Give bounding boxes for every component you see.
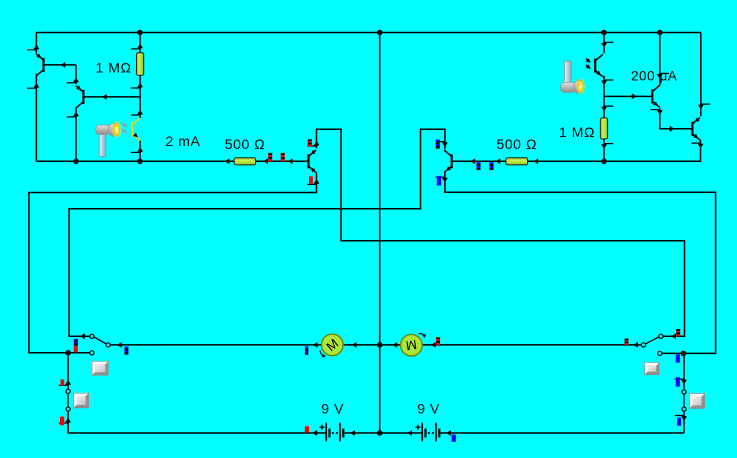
svg-text:500 Ω: 500 Ω (225, 136, 265, 152)
label R2 500 ohm (225, 136, 265, 152)
wire node to photo-transistor left (139, 97, 141, 118)
battery B2 9V right (415, 423, 440, 442)
charge marker blue striped right rail b (490, 162, 494, 170)
current arrow Q6 collector wire (436, 142, 448, 147)
current arrow after 500-ohm left b (288, 158, 293, 164)
node top rail / Q4 collector (657, 30, 663, 36)
current arrow Q3 emitter (307, 179, 319, 184)
resistor R4 1 Mohm right (600, 118, 607, 139)
photo-transistor right (595, 54, 603, 76)
current arrow left chain upper (59, 380, 71, 385)
transistor Q6 (444, 150, 452, 172)
push button PB1 left (66, 389, 89, 411)
push button SW2 actuator (644, 362, 659, 375)
wire Q3 emitter left outer loop to left switch (29, 172, 317, 352)
current arrow Q4 collector feed (657, 73, 669, 78)
wire Q6 emitter right outer loop to right switch (445, 172, 716, 353)
current arrow right rail a (470, 158, 475, 164)
wire left pushbutton chain lower to bottom rail (68, 411, 325, 433)
current arrow right of 500-ohm right (533, 158, 538, 164)
label R4 1 Mohm (559, 124, 595, 140)
wire Q1 emitter to top rail (35, 33, 37, 54)
wire top rail to photo-transistor right (603, 33, 605, 54)
svg-text:200 μA: 200 μA (631, 69, 677, 84)
current arrow right chain lower (675, 416, 687, 421)
node top rail / center bus (377, 30, 383, 36)
current arrow before 500-ohm left (225, 158, 230, 164)
charge marker blue striped right rail a (477, 162, 481, 170)
charge marker red striped right switch feed (676, 329, 680, 336)
svg-text:500 Ω: 500 Ω (497, 136, 537, 152)
motor M left (320, 334, 343, 357)
current arrow Q3 collector (307, 141, 319, 146)
node top rail / 1Mohm left (137, 30, 143, 36)
transistor Q5 (692, 118, 700, 141)
wire bottom rail battery link (345, 432, 422, 434)
current arrow Q1 emitter up (27, 44, 39, 49)
wire Q3 collector loop to right switch (317, 129, 685, 336)
current arrow below photo right (601, 80, 613, 85)
wire photo node to Q4 base (604, 95, 651, 97)
charge marker red solid left switch node (74, 346, 78, 353)
node photo left / lower-left rail (137, 159, 143, 165)
label current 2 mA (166, 133, 201, 149)
transistor Q4 (652, 85, 660, 107)
switch SW1 left changeover (90, 334, 110, 355)
current arrow Q2 base (102, 94, 107, 100)
current arrow left switch pole (117, 342, 122, 348)
charge marker blue striped left of motor M (305, 346, 308, 355)
wire Q5 collector to lower rail (604, 140, 701, 162)
transistor Q1 (36, 54, 44, 77)
current arrow Q4 base (632, 94, 637, 100)
torch right (561, 61, 585, 94)
current arrow right chain upper (675, 379, 687, 384)
current arrow Q5 collector wire (691, 143, 703, 148)
resistor R1 1 Mohm left (137, 53, 144, 76)
charge marker blue solid right battery (452, 435, 456, 442)
wire Q1 base (44, 64, 77, 66)
wire left pushbutton chain upper (67, 353, 69, 390)
svg-text:9 V: 9 V (321, 400, 344, 416)
current arrow above 1Mohm right (601, 106, 613, 111)
wire right pushbutton chain lower (683, 411, 685, 433)
current arrow below photo left (131, 147, 143, 152)
current arrow Q1 base (60, 62, 65, 68)
charge marker red striped 500-ohm left b (281, 153, 285, 162)
wire Q2 collector down (75, 108, 77, 162)
svg-text:1 MΩ: 1 MΩ (96, 60, 132, 76)
current arrow Q1 collector down-wire (27, 83, 39, 88)
battery B1 9V left (319, 423, 344, 442)
current arrow below 1Mohm right (601, 144, 613, 149)
wire top rail to 1Mohm left (139, 33, 141, 53)
node motor line / center bus (377, 342, 383, 348)
charge marker red striped Q3 collector (308, 139, 312, 146)
charge marker blue solid right chain lower (677, 418, 681, 426)
current arrow above photo left (131, 110, 143, 115)
svg-text:M: M (405, 337, 418, 353)
resistor R2 500 ohm left (234, 158, 255, 165)
motor M right (401, 333, 426, 356)
wire left switch lower contact feed (29, 352, 68, 354)
current arrow above 1Mohm left (131, 44, 143, 49)
current arrow above photo right (601, 42, 613, 47)
wire motor link between motors (343, 344, 401, 346)
current arrow motor M left (313, 342, 318, 348)
node 1Mohm right / lower rail (601, 159, 607, 165)
label R3 500 ohm (497, 136, 537, 152)
charge marker blue solid right chain upper (676, 377, 680, 386)
wire 500-ohm left to Q3 base (256, 160, 308, 162)
wire 1Mohm left to node (139, 75, 141, 97)
wire Q1 base to Q2 emitter link (75, 65, 77, 84)
transistor Q3 (309, 150, 317, 173)
wire 500-ohm right to Q6 base (453, 160, 506, 162)
charge marker red solid Q3 emitter (309, 176, 313, 183)
charge marker red striped right of motor W (436, 337, 440, 345)
charge marker red solid left battery (305, 426, 309, 432)
push button PB2 right (682, 390, 705, 411)
wire Q6 collector loop to left switch feed (69, 129, 445, 336)
node Q2 collector / lower-left rail (73, 159, 79, 165)
charge marker red solid left chain lower (60, 417, 64, 426)
node left switch lower contact (65, 350, 71, 356)
current arrow left chain lower (59, 418, 71, 423)
wire top rail right end to Q5 emitter (700, 33, 702, 117)
current arrow motor M right (352, 342, 357, 348)
wire right pushbutton chain upper (683, 353, 685, 390)
current arrow Q6 emitter wire (436, 177, 448, 182)
label current 200 uA (631, 69, 677, 84)
charge marker red solid left chain upper (61, 379, 65, 385)
wire lower node to 500-ohm right (528, 160, 605, 162)
wire center vertical bus (379, 33, 381, 434)
wire motor line to right switch (422, 344, 641, 346)
current arrow motor W left (392, 342, 397, 348)
wire Q1 collector down-left rail (35, 74, 37, 162)
photo-transistor left (lit, yellow) (132, 118, 140, 140)
wire motor line from left switch (110, 344, 321, 346)
charge marker blue striped left pole wire (124, 347, 128, 355)
current arrow below 1Mohm left (131, 83, 143, 88)
charge marker blue solid right node wire (676, 355, 680, 363)
svg-text:1 MΩ: 1 MΩ (559, 124, 595, 140)
resistor R3 500 ohm right (506, 158, 528, 165)
current arrow right rail b (496, 158, 501, 164)
node right switch feed (681, 351, 687, 357)
charge marker blue striped Q6 collector (436, 140, 440, 149)
label B1 9 V (321, 400, 344, 416)
wire bottom rail right (441, 432, 685, 434)
label B2 9 V (417, 400, 440, 416)
current arrow right switch pole (633, 342, 638, 348)
svg-text:9 V: 9 V (417, 400, 440, 416)
current arrow motor W right (431, 342, 436, 348)
charge marker blue solid Q6 emitter (437, 176, 441, 185)
current arrow bottom rail left of B2 (407, 430, 412, 436)
push button SW1 actuator (92, 361, 109, 375)
current arrow bottom rail left of B1 (312, 430, 317, 436)
current arrow bottom rail right of B1 (350, 430, 355, 436)
node top rail / photo right (601, 30, 607, 36)
charge marker blue striped left switch feed (74, 339, 78, 346)
svg-text:2 mA: 2 mA (166, 133, 201, 149)
wire 1Mohm right to lower node (603, 139, 605, 161)
label R1 1 Mohm (96, 60, 132, 76)
current arrow bottom rail right of B2 (446, 430, 451, 436)
current arrow after 500-ohm left a (263, 158, 268, 164)
current arrow left switch feed (80, 333, 85, 339)
wire Q4 collector to top rail (659, 33, 661, 86)
current arrow Q5 emitter feed (698, 104, 710, 109)
switch SW2 right changeover (641, 334, 663, 355)
current arrow right switch feed (671, 333, 676, 339)
wire Q2 base to 1Mohm node (83, 96, 139, 98)
wire photo-transistor left to bottom node (139, 141, 141, 162)
wire lower-left horizontal to Q3 base (36, 160, 234, 162)
charge marker red striped right pole wire (625, 339, 629, 345)
wire photo-transistor right to 1Mohm right (603, 76, 605, 118)
current arrow Q2 collector wire (67, 112, 79, 117)
light rays left (122, 123, 128, 134)
wire top supply rail (36, 32, 700, 34)
charge marker red striped 500-ohm left a (268, 153, 272, 162)
current arrow Q5 base (670, 126, 675, 132)
torch left (96, 121, 121, 156)
light rays right (586, 58, 591, 69)
wire Q4 emitter to Q5 base (660, 108, 692, 129)
current arrow Q4 emitter wire (651, 110, 663, 115)
node bottom rail / center bus (377, 430, 383, 436)
current arrow Q2 emitter link (67, 77, 79, 82)
transistor Q2 (76, 86, 84, 109)
